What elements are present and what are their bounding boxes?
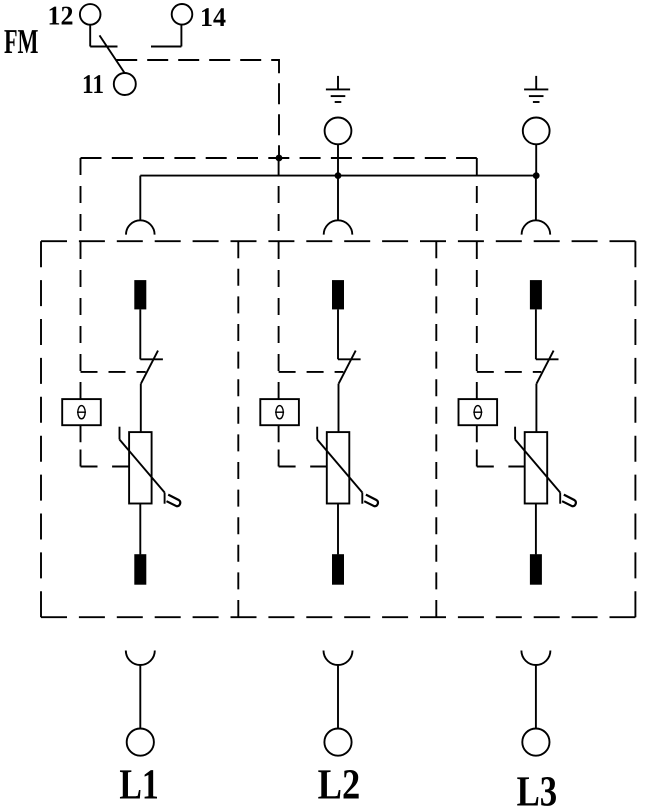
- junction PE bus 1: [335, 172, 342, 179]
- mechanical linkage vertical phase 1: [80, 158, 82, 467]
- label L3: [517, 769, 558, 810]
- ground 2: [524, 76, 548, 102]
- varistor RV3 diagonal mark: [515, 427, 560, 504]
- varistor RV2 U value label: [364, 495, 378, 507]
- label L1: [119, 762, 158, 809]
- varistor RV1 diagonal mark: [120, 427, 165, 504]
- PE bus wire: [140, 175, 536, 177]
- pin label 14: [200, 2, 226, 32]
- wire bus drop phase 2: [337, 176, 339, 221]
- mechanical linkage vertical phase 3: [476, 158, 478, 467]
- terminal 12 of contact FM: [80, 4, 101, 25]
- phase terminal circle L2: [324, 729, 351, 756]
- wire terminal 12 to fixed contact: [90, 25, 117, 47]
- terminal block bottom phase 2: [332, 554, 344, 585]
- varistor RV1 body: [129, 432, 152, 503]
- terminal 14 of contact FM: [172, 4, 193, 25]
- wire varistor to bottom block phase 1: [139, 504, 141, 555]
- wire bus drop phase 3: [535, 176, 537, 221]
- plug-in socket bottom phase 2: [324, 651, 353, 666]
- svg-text:14: 14: [200, 2, 226, 32]
- terminal block top phase 3: [530, 280, 542, 309]
- terminal block bottom phase 1: [134, 554, 146, 585]
- terminal block bottom phase 3: [530, 554, 542, 585]
- wire to phase terminal L1: [139, 665, 141, 729]
- ground 1: [326, 76, 350, 102]
- phase terminal circle L1: [127, 729, 154, 756]
- wire to phase terminal L2: [337, 665, 339, 729]
- plug-in socket top phase 1: [126, 220, 155, 234]
- plug-in socket top phase 2: [324, 220, 353, 234]
- wire to disconnector phase 3: [535, 309, 537, 359]
- thermal sensor θ1 symbol: [77, 406, 86, 419]
- svg-text:L2: L2: [318, 762, 361, 809]
- varistor RV2 body: [327, 432, 350, 503]
- terminal 11 of contact FM: [114, 73, 136, 95]
- thermal disconnector switch phase 2: [338, 351, 361, 384]
- SPD enclosure dashed box: [41, 241, 635, 617]
- thermal disconnector switch phase 3: [536, 351, 559, 384]
- svg-text:L3: L3: [517, 769, 558, 810]
- wire to disconnector phase 1: [139, 309, 141, 359]
- thermal sensor box θ3: [459, 399, 498, 425]
- mechanical linkage to varistor phase 2: [279, 466, 327, 468]
- varistor RV3 U value label: [562, 495, 576, 507]
- thermal sensor box θ1: [62, 399, 101, 425]
- mechanical linkage wire from FM blade: [116, 60, 279, 158]
- varistor RV3 body: [525, 432, 548, 503]
- wire varistor to bottom block phase 2: [337, 504, 339, 555]
- wire disconnector to varistor phase 1: [140, 384, 142, 432]
- wire varistor to bottom block phase 3: [535, 504, 537, 555]
- switch blade of contact FM: [100, 35, 125, 73]
- plug-in socket top phase 3: [522, 220, 551, 234]
- svg-text:FM: FM: [4, 22, 39, 61]
- wire to disconnector phase 2: [337, 309, 339, 359]
- mechanical linkage to varistor phase 3: [477, 466, 525, 468]
- thermal sensor θ2 symbol: [275, 406, 284, 419]
- varistor RV2 diagonal mark: [317, 427, 362, 504]
- svg-text:12: 12: [48, 0, 74, 30]
- junction linkage rail / FM riser: [276, 155, 283, 162]
- thermal disconnector switch phase 1: [140, 351, 163, 384]
- PE terminal circle 2: [523, 117, 550, 144]
- plug-in socket bottom phase 1: [126, 651, 155, 666]
- thermal sensor box θ2: [260, 399, 299, 425]
- wire bus drop phase 1: [139, 176, 141, 221]
- mechanical linkage to switch phase 2: [279, 371, 344, 373]
- phase terminal circle L3: [522, 729, 549, 756]
- mechanical linkage rail: [81, 157, 477, 159]
- junction PE bus 2: [533, 172, 540, 179]
- mechanical linkage vertical phase 2: [278, 158, 280, 467]
- wire PE terminal 1 to bus: [337, 144, 339, 175]
- label FM: [4, 22, 39, 61]
- mechanical linkage to varistor phase 1: [81, 466, 130, 468]
- plug-in socket bottom phase 3: [521, 651, 550, 666]
- varistor RV1 U value label: [167, 495, 181, 507]
- mechanical linkage to switch phase 1: [81, 371, 146, 373]
- svg-text:11: 11: [82, 69, 104, 99]
- terminal block top phase 1: [134, 280, 146, 309]
- terminal block top phase 2: [332, 280, 344, 309]
- label L2: [318, 762, 361, 809]
- pin label 12: [48, 0, 74, 30]
- pin label 11: [82, 69, 104, 99]
- wire PE terminal 2 to bus: [535, 144, 537, 175]
- module divider 1: [237, 241, 239, 617]
- PE terminal circle 1: [325, 117, 352, 144]
- svg-text:L1: L1: [119, 762, 158, 809]
- mechanical linkage to switch phase 3: [477, 371, 542, 373]
- wire to phase terminal L3: [535, 665, 537, 729]
- wire terminal 14 to fixed contact: [151, 25, 181, 47]
- wire disconnector to varistor phase 3: [535, 384, 537, 432]
- thermal sensor θ3 symbol: [473, 406, 482, 419]
- module divider 2: [435, 241, 437, 617]
- wire disconnector to varistor phase 2: [338, 384, 340, 432]
